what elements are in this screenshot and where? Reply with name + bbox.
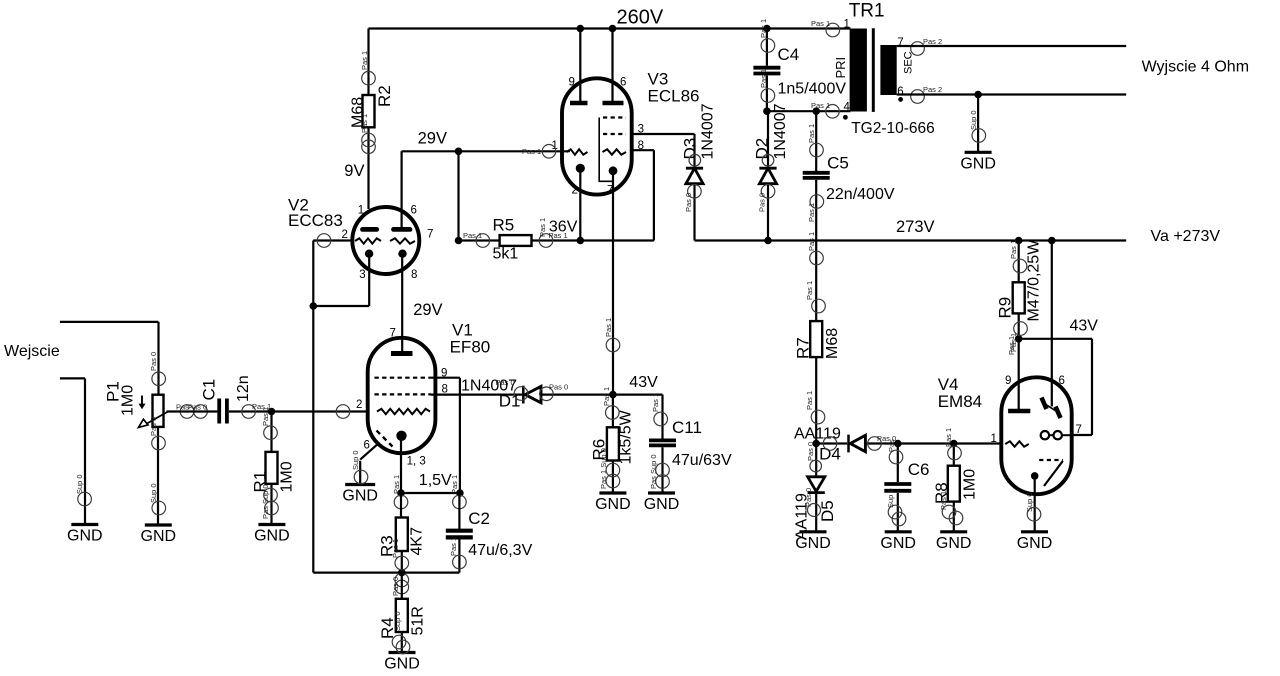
pin marker D3 bottom [684,185,701,213]
svg-text:Pas 2: Pas 2 [923,85,942,94]
V2 pin number 2 [342,229,348,241]
V4 eye to pin7 [1062,434,1072,436]
label R1 ref [251,471,270,493]
label R9 value [1026,239,1043,322]
wire R1 bottom [270,484,272,525]
svg-text:29V: 29V [413,301,442,319]
svg-text:Pas 0: Pas 0 [758,193,767,212]
V2 left grid zigzag [355,238,381,243]
V3 pin number 6 [620,76,626,88]
wire D2 top [767,111,769,167]
svg-text:Pas 0: Pas 0 [804,488,813,507]
transformer TR1 primary winding [850,29,867,112]
wire 36V R5 to V3 [532,239,654,241]
ground R1 [254,525,290,545]
wire D5 bottom [815,494,817,532]
svg-text:C2: C2 [468,509,490,528]
svg-text:Pas 1: Pas 1 [602,387,611,406]
svg-text:Pas 1: Pas 1 [805,391,814,410]
wire V2 pin2 down [312,241,314,307]
wire R1 top [270,412,272,452]
pin marker R7 pin1 [807,232,823,265]
svg-text:Pas 1: Pas 1 [759,19,768,38]
label R1 value 1M0 [279,461,296,492]
pin marker D5 bottom [804,488,821,517]
junction output gnd [974,91,982,99]
svg-text:Wejscie: Wejscie [4,343,60,360]
wire V2 pin3 down [368,254,370,306]
label C11 value [672,452,732,469]
label C4 ref [778,45,800,64]
wire output gnd drop [977,95,979,153]
label C2 ref [468,509,490,528]
ground C11 [644,493,680,513]
tube V3 envelope [562,78,632,194]
svg-text:R9: R9 [996,297,1015,319]
pin marker C2 bottom [449,537,466,569]
svg-text:Pas 1: Pas 1 [651,393,660,412]
TR1 primary phasing dot [843,115,848,120]
diode D2 [759,168,776,184]
ground V4 [1017,532,1053,552]
svg-text:47u/63V: 47u/63V [672,452,732,469]
pin marker D4 right [868,434,896,450]
pin marker D2 top [762,154,774,166]
label R7 ref [794,337,813,359]
svg-text:GND: GND [254,528,290,545]
svg-text:Pas 2: Pas 2 [923,37,942,46]
svg-text:29V: 29V [418,129,447,147]
wire C4 top [766,29,768,66]
label V4 type EM84 [938,392,982,411]
svg-text:Pas 0: Pas 0 [496,378,515,387]
pin marker R4 bottom [392,611,410,653]
svg-text:GND: GND [960,156,996,173]
pin marker D2 bottom [758,185,775,213]
resistor R6 [607,427,619,460]
svg-text:Pas 1: Pas 1 [1009,240,1018,259]
svg-text:D2: D2 [753,138,772,160]
svg-text:Pas 1: Pas 1 [805,281,814,300]
V4 eye circle left [1041,431,1049,439]
V4 anode bar [1008,409,1030,414]
wire D4 left [816,442,847,444]
svg-text:Pas 1: Pas 1 [807,124,816,143]
svg-text:43V: 43V [1070,318,1099,335]
label V1 type EF80 [450,338,491,357]
V1 cathode dashed arc [377,431,393,447]
svg-text:Pas 0: Pas 0 [149,352,158,371]
V1 pin number 6 [364,440,370,452]
svg-text:6: 6 [897,86,903,98]
wire C6 top [897,444,899,483]
junction C2 top [456,489,464,497]
V1 pin number 8 [442,384,448,396]
svg-text:1: 1 [358,205,364,217]
V4 pin number 9 [1005,375,1011,387]
wire V3 pin3 [632,133,695,135]
V2 left anode bar [363,227,377,232]
svg-text:Pas 0: Pas 0 [806,442,815,461]
junction feedback node [310,302,318,310]
label V1 ref [452,321,473,340]
svg-text:GND: GND [595,496,631,513]
V1 pin numbers 1 3 [407,456,426,468]
resistor R7 [810,321,822,357]
junction R1 top [268,408,276,416]
wire R6 top [612,395,614,428]
diode D4 [849,435,866,453]
svg-text:AA119: AA119 [794,426,841,443]
pin marker TR1 pin4 [811,101,839,118]
transformer TR1 secondary winding [880,45,896,95]
label R3 value 4K7 [409,527,426,556]
svg-text:GND: GND [384,656,420,673]
svg-text:1M0: 1M0 [120,385,137,416]
wire 43V horizontal [1019,338,1092,340]
wire V2 pin2 left [313,239,353,241]
pin marker P1 wiper [176,403,207,419]
svg-text:6: 6 [620,76,626,88]
svg-text:47u/6,3V: 47u/6,3V [468,542,532,559]
pin marker V1 pin6 gnd [351,450,368,483]
label V3 ref [648,70,669,89]
V3 pin number 1 [552,140,558,152]
svg-text:Pas 1: Pas 1 [392,475,401,494]
pin marker D5 top [806,442,822,472]
wire C2 bottom [458,540,460,573]
pin marker C5 bottom [807,195,824,222]
resistor R4 [396,599,408,632]
wire R6 bottom [612,461,614,494]
pin marker P1 bottom [149,417,165,450]
svg-text:EM84: EM84 [938,392,982,411]
svg-text:TG2-10-666: TG2-10-666 [851,120,935,137]
label R5 value 5k1 [493,246,519,263]
wire V1 pin9 down [459,378,461,493]
svg-text:Pas 1: Pas 1 [450,475,459,494]
svg-text:Pas Sup 0: Pas Sup 0 [649,454,658,489]
wire C4 bottom [766,75,768,111]
wire V1 cathode down [400,435,402,493]
svg-text:Pas 1: Pas 1 [360,114,369,133]
wire R4 top [401,573,403,599]
wire P1 wiper to C1 [167,410,218,412]
pin marker R4 top [391,573,409,596]
svg-text:1: 1 [844,19,850,31]
pin marker V4 cathode [1025,492,1041,521]
svg-text:D4: D4 [819,445,841,464]
wire V2 pin8 to V1 pin7 [401,254,403,352]
pin marker R3 top [392,475,408,509]
svg-text:1M0: 1M0 [279,461,296,492]
wire R8 bottom [953,502,955,532]
wire bottom horizontal [313,571,459,573]
ground V1 pin6 [342,485,378,505]
pin marker C11 top [651,393,668,426]
junction C5 top [812,107,820,115]
svg-text:R2: R2 [375,85,394,107]
junction D4 node [812,440,820,448]
TR1 pin number 1 [844,19,850,31]
label D1 value 1N4007 [461,378,517,395]
V2 pin number 6 [411,205,417,217]
svg-text:D1: D1 [499,392,521,411]
pin marker R5 left [463,231,490,247]
label R6 ref [590,439,609,461]
junction V3 pin6 on 260V rail [609,25,617,33]
resistor R3 [396,518,408,552]
ground C6 [880,532,916,552]
svg-text:ECL86: ECL86 [648,87,700,106]
label D5 ref [818,500,837,522]
V2 pin number 3 [359,269,365,281]
junction V3 pin2 on 36V [577,237,585,245]
pin marker C1 right [242,402,271,418]
junction R8 node [950,440,958,448]
label D1 ref [499,392,521,411]
TR1 pin number 7 [897,37,903,49]
V1 grid2 dashed [374,377,431,379]
pin marker R1 bottom [261,484,278,519]
V2 pin number 7 [427,229,433,241]
node 36V label [549,219,578,236]
junction D2 on 273V rail [764,237,772,245]
pin marker 36V left [538,218,547,237]
pin marker C6 top [887,439,903,464]
svg-text:C1: C1 [200,379,219,401]
label R3 ref [378,535,397,557]
svg-text:51R: 51R [410,606,427,635]
wire V4 pin6 drop [1051,241,1053,407]
svg-text:GND: GND [1017,535,1053,552]
label C1 value 12n [235,375,252,402]
wire 260V rail [369,27,851,29]
svg-text:Pas 0: Pas 0 [391,577,400,596]
node 260V label [617,7,664,29]
junction 43V node [1015,335,1023,343]
junction R3 R4 [398,569,406,577]
wire C2 top stem [458,493,460,529]
svg-text:Sup 0: Sup 0 [969,110,978,130]
capacitor C5 [803,173,830,178]
V4 deflection bar 2 [1056,407,1061,419]
label C5 ref [827,154,849,173]
wire C1 to junction [229,410,368,412]
svg-text:Sup 0: Sup 0 [886,488,895,508]
ground D5 [795,532,831,552]
V1 grid3 dashed [374,393,431,395]
svg-text:EF80: EF80 [450,338,491,357]
svg-text:GND: GND [795,535,831,552]
wire R9 top [1018,241,1020,283]
svg-text:C5: C5 [827,154,849,173]
wire output top [897,45,1126,47]
label D4 value AA119 [794,426,841,443]
label R6 value [618,409,635,464]
svg-text:Pas: Pas [887,439,896,452]
label R9 ref [996,297,1015,319]
wire R8 top [953,444,955,466]
svg-text:Pas 1: Pas 1 [449,537,458,556]
pin marker R5 right [539,231,567,247]
node Va label [1151,228,1221,245]
wire V3 pin8 horizontal [632,149,654,151]
svg-text:M68: M68 [824,328,841,359]
svg-text:260V: 260V [617,7,664,29]
svg-text:6: 6 [364,440,370,452]
pin marker R6 top [602,387,619,419]
label R4 value 51R [410,606,427,635]
V4 eye link [1049,434,1053,436]
resistor R9 [1013,282,1025,313]
wire D4 to V4 pin1 [865,442,1001,444]
V3 right cathode dot [609,166,618,175]
ground R8 [936,532,972,552]
svg-text:Pas 1: Pas 1 [811,101,830,110]
wire input top down [157,322,159,395]
label V2 type ECC83 [288,211,343,230]
svg-text:Pas Sup 0: Pas Sup 0 [261,484,270,519]
svg-text:7: 7 [1076,424,1082,436]
svg-text:Pas 1: Pas 1 [463,231,482,240]
V2 right anode bar [394,227,411,232]
pin marker V4 pin9 [1007,336,1016,355]
svg-text:Pas 1: Pas 1 [261,407,270,426]
svg-text:GND: GND [67,528,103,545]
wire V4 pin7 [1072,434,1093,436]
wire output bottom [897,93,1126,95]
wire D5 top [815,444,817,477]
junction cathode node [397,489,405,497]
wire R7 bottom [815,357,817,443]
label C6 ref [908,460,930,479]
junction R5 left [455,237,463,245]
capacitor C2 [446,531,473,538]
wire C11 down [661,395,663,439]
svg-text:R5: R5 [493,216,515,235]
wire D2 bottom [767,184,769,241]
pin marker V3 pin7 [604,318,620,352]
pin marker R9 bottom [1009,322,1027,352]
wire P1 bottom [157,427,159,525]
svg-text:1N4007: 1N4007 [700,103,717,159]
svg-text:7: 7 [607,184,613,196]
svg-text:Pas 1: Pas 1 [360,51,369,70]
svg-text:7: 7 [390,328,396,340]
wire feedback down [312,306,314,573]
pin marker C4 bottom [759,69,775,102]
node 29V label 2 [413,301,442,319]
svg-text:5k1: 5k1 [493,246,519,263]
svg-text:3: 3 [359,269,365,281]
svg-text:Pas 1: Pas 1 [522,147,541,156]
svg-text:Sup 0: Sup 0 [149,483,158,503]
wire V4 pin9 drop [1018,339,1020,409]
svg-text:8: 8 [638,140,644,152]
svg-text:7: 7 [427,229,433,241]
wire V3 pin6 plate [611,29,613,102]
svg-text:2: 2 [342,229,348,241]
svg-text:C4: C4 [778,45,800,64]
pin marker R8 bottom [939,491,963,525]
label P1 ref [104,381,123,402]
pin marker R1 top [261,407,277,440]
capacitor C1 [219,399,227,424]
junction V4 pin6 on rail [1048,237,1056,245]
pin marker TR1 pin6 [911,85,942,103]
svg-text:Pas 0: Pas 0 [149,417,158,436]
label D2 ref [753,138,772,160]
V1 grid1 zigzag [377,409,430,414]
svg-text:C11: C11 [672,418,702,437]
label C5 value [826,186,895,203]
svg-text:2: 2 [572,184,578,196]
wire 29V down to R5 [457,151,459,240]
V2 pin number 8 [411,269,417,281]
label V4 ref [938,375,959,394]
V4 deflection bar 1 [1042,398,1047,410]
label D3 value 1N4007 [700,103,717,159]
wire V4 cathode down [1034,476,1036,532]
V3 left cathode dot [576,164,585,173]
pin marker C2 top [450,475,466,509]
wire C5 top [815,111,817,171]
V3 pentode grid2 dashed [603,116,626,118]
label C2 value [468,542,532,559]
node input label [4,343,60,360]
pin marker output gnd [969,110,986,142]
TR1 secondary phasing dot [898,97,903,102]
svg-text:Pas 1: Pas 1 [1007,336,1016,355]
node 273V label [896,218,935,236]
svg-text:Sup 0: Sup 0 [393,611,402,631]
P1 adjust arrow [139,396,146,410]
svg-text:1: 1 [991,433,997,445]
ground R4 [384,653,420,673]
wire V3 pin8 vertical [653,150,655,240]
wire D3 top [693,134,695,167]
wire input bottom down [84,378,86,524]
V4 grid dashed [1039,459,1063,461]
wire C11 bottom [661,447,663,493]
node output label [1142,59,1249,76]
wire V1 pin6 down [359,461,361,485]
svg-text:43V: 43V [629,374,658,391]
svg-text:22n/400V: 22n/400V [826,186,895,203]
node 1,5V label [419,472,452,489]
wire V3 pin2 cathode down [579,168,581,240]
svg-text:Pas 1: Pas 1 [391,539,400,558]
svg-text:273V: 273V [896,218,935,236]
potentiometer P1 body [153,395,164,427]
pin marker R8 top [944,428,961,460]
node 29V label [418,129,447,147]
pin marker P1 gnd [149,483,166,514]
P1 wiper arrow [139,411,169,427]
wire R3 top [400,493,402,518]
pin marker R3 bottom [391,539,409,570]
V4 cathode dot [1031,472,1039,480]
svg-text:GND: GND [342,488,378,505]
svg-text:1,5V: 1,5V [419,472,452,489]
svg-text:Pas 1: Pas 1 [604,318,613,337]
diode D3 [686,168,703,184]
pin marker V1 pin2 [336,405,350,419]
V4 grid zigzag [1005,441,1029,446]
diode D1 [523,386,541,404]
pin marker D4 left [823,437,837,451]
